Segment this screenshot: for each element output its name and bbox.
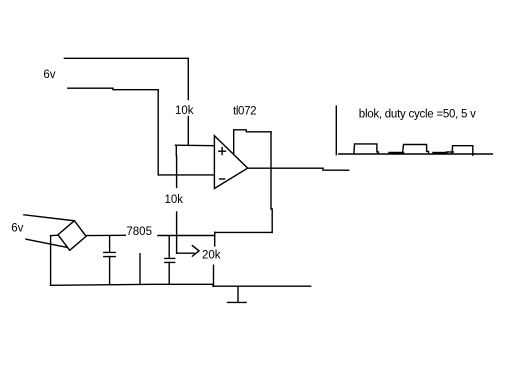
ground bar xyxy=(228,301,247,303)
svg-text:20k: 20k xyxy=(202,249,221,261)
svg-text:7805: 7805 xyxy=(126,226,152,238)
wire ground rail bottom with jog xyxy=(51,284,311,286)
capacitor C1 plates xyxy=(104,252,115,256)
capacitor C2 plates xyxy=(165,258,175,262)
waveform pulse 3 xyxy=(452,146,473,156)
potentiometer P1 lower section xyxy=(213,265,215,286)
svg-text:6v: 6v xyxy=(11,222,23,234)
capacitor C1 top lead xyxy=(109,236,111,251)
svg-text:tl072: tl072 xyxy=(233,105,256,117)
wire op-amp inverting input xyxy=(158,174,214,176)
wire bridge negative leg down to ground rail xyxy=(50,236,52,286)
wire 5v rail from bridge to 7805 label xyxy=(86,234,125,236)
capacitor C2 bottom lead xyxy=(168,262,170,284)
waveform low segment 1 xyxy=(390,152,404,154)
wire 7805 ground pin xyxy=(139,254,141,285)
waveform pulse 2 xyxy=(403,145,429,154)
wire feedback tap from hypotenuse up xyxy=(233,130,235,155)
svg-text:blok, duty cycle =50, 5 v: blok, duty cycle =50, 5 v xyxy=(359,109,476,121)
resistor R2 lower lead crossing 5v rail xyxy=(176,212,178,253)
op-amp U1 triangle xyxy=(214,136,247,189)
wire second 6v feed horizontal with jog xyxy=(68,88,158,90)
waveform pulse 3 foot step xyxy=(446,151,453,153)
wire 5v rail right of 7805 with jog up xyxy=(158,232,272,235)
wire wiper arm to potentiometer xyxy=(177,252,194,254)
wire feedback vertical down to 5v rail xyxy=(271,132,272,233)
capacitor C1 bottom lead xyxy=(109,257,111,285)
op-amp U1 plus sign xyxy=(219,148,226,155)
potentiometer wiper arrowhead xyxy=(192,246,199,257)
diode bridge rectifier diamond xyxy=(58,221,86,251)
op-amp U1 minus sign xyxy=(220,178,225,180)
svg-text:6v: 6v xyxy=(43,69,55,81)
waveform plot y-axis xyxy=(335,106,337,155)
capacitor C2 top lead xyxy=(168,236,170,257)
potentiometer P1 upper section xyxy=(214,232,216,246)
resistor R1 10k (upper) lead below label xyxy=(187,117,189,146)
wire top 6v feed vertical drop xyxy=(187,58,189,99)
wire output horizontal from op-amp xyxy=(248,168,349,170)
resistor R2 10k (lower) upper lead from + input node xyxy=(175,145,177,187)
svg-text:10k: 10k xyxy=(165,194,184,206)
wire top 6v feed horizontal xyxy=(64,57,188,59)
waveform plot x-axis xyxy=(339,153,493,155)
waveform pulse 1 xyxy=(354,144,379,154)
wire ac source lower diagonal xyxy=(26,239,67,247)
wire op-amp non-inverting input xyxy=(175,144,214,147)
svg-text:10k: 10k xyxy=(175,105,194,117)
wire second 6v feed vertical xyxy=(157,90,159,175)
ground stem xyxy=(237,286,239,302)
wire feedback top horizontal with jog xyxy=(234,130,271,132)
wire bridge left vertex stub xyxy=(51,234,58,236)
waveform low segment 2 xyxy=(434,152,447,154)
wire ac source upper diagonal xyxy=(24,215,75,221)
